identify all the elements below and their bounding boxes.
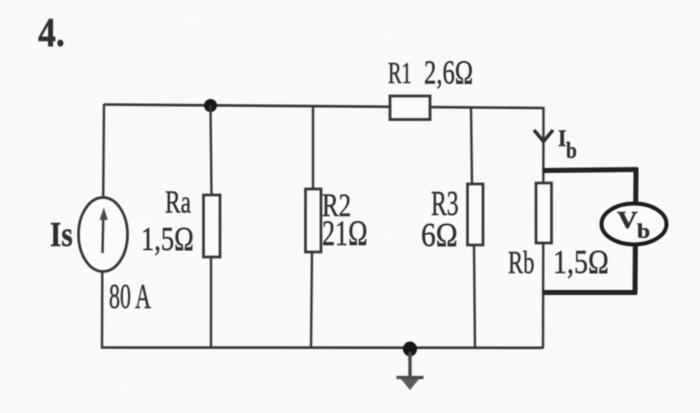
current source Is	[79, 198, 128, 272]
svg-text:b: b	[566, 138, 577, 164]
resistor R1	[390, 96, 430, 120]
wire R2 branch bottom	[311, 252, 312, 349]
wire bottom horizontal	[101, 346, 543, 349]
wire R2 branch top	[312, 107, 314, 191]
node A junction dot	[204, 99, 217, 112]
svg-text:V: V	[617, 206, 638, 233]
svg-text:Is: Is	[50, 215, 73, 254]
ground node dot	[403, 342, 417, 357]
svg-text:1,5Ω: 1,5Ω	[141, 220, 194, 258]
wire top horizontal	[104, 105, 544, 109]
svg-text:6Ω: 6Ω	[421, 216, 458, 254]
voltmeter Vb	[602, 204, 667, 245]
resistor R3	[468, 184, 484, 245]
wire R3 branch top	[471, 108, 472, 186]
wire R3 branch bottom	[474, 245, 475, 349]
wire voltmeter loop bottom (thick)	[543, 290, 637, 295]
svg-text:Rb: Rb	[508, 245, 534, 279]
ground stub	[408, 352, 411, 378]
resistor Rb	[536, 183, 552, 243]
svg-text:4.: 4.	[38, 11, 65, 56]
svg-text:R1: R1	[388, 56, 412, 90]
wire voltmeter loop right (thick)	[635, 168, 636, 294]
ground	[397, 376, 424, 379]
wire voltmeter loop top (thick)	[543, 170, 638, 171]
resistor Ra	[204, 195, 221, 257]
current arrow Ib	[534, 130, 553, 142]
svg-text:21Ω: 21Ω	[322, 213, 367, 253]
svg-text:I: I	[558, 125, 566, 151]
wire Ra branch bottom	[210, 257, 212, 349]
wire Rb branch vertical	[542, 107, 545, 349]
wire Ra branch top	[211, 105, 212, 196]
wire left vertical lower	[101, 271, 104, 349]
svg-text:2,6Ω: 2,6Ω	[424, 55, 473, 91]
svg-text:b: b	[637, 219, 650, 243]
svg-text:80 A: 80 A	[109, 278, 151, 316]
resistor R2	[306, 189, 322, 252]
svg-text:Ra: Ra	[165, 185, 191, 220]
wire left vertical	[102, 104, 105, 199]
svg-text:1,5Ω: 1,5Ω	[553, 244, 609, 281]
